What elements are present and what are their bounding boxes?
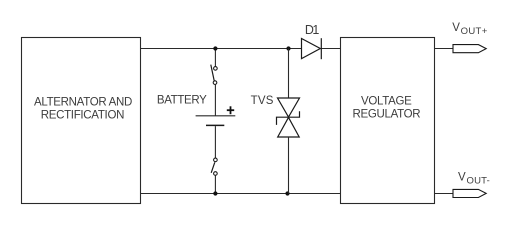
svg-text:OUT-: OUT- (467, 175, 491, 186)
svg-text:D1: D1 (305, 23, 320, 37)
svg-text:V: V (452, 22, 460, 34)
svg-text:BATTERY: BATTERY (157, 94, 207, 106)
svg-text:ALTERNATOR AND: ALTERNATOR AND (34, 96, 132, 108)
svg-text:REGULATOR: REGULATOR (352, 108, 420, 120)
svg-text:RECTIFICATION: RECTIFICATION (41, 109, 124, 121)
svg-text:OUT+: OUT+ (461, 26, 488, 37)
svg-text:V: V (458, 171, 466, 183)
svg-text:TVS: TVS (251, 95, 274, 107)
svg-text:VOLTAGE: VOLTAGE (361, 96, 412, 108)
